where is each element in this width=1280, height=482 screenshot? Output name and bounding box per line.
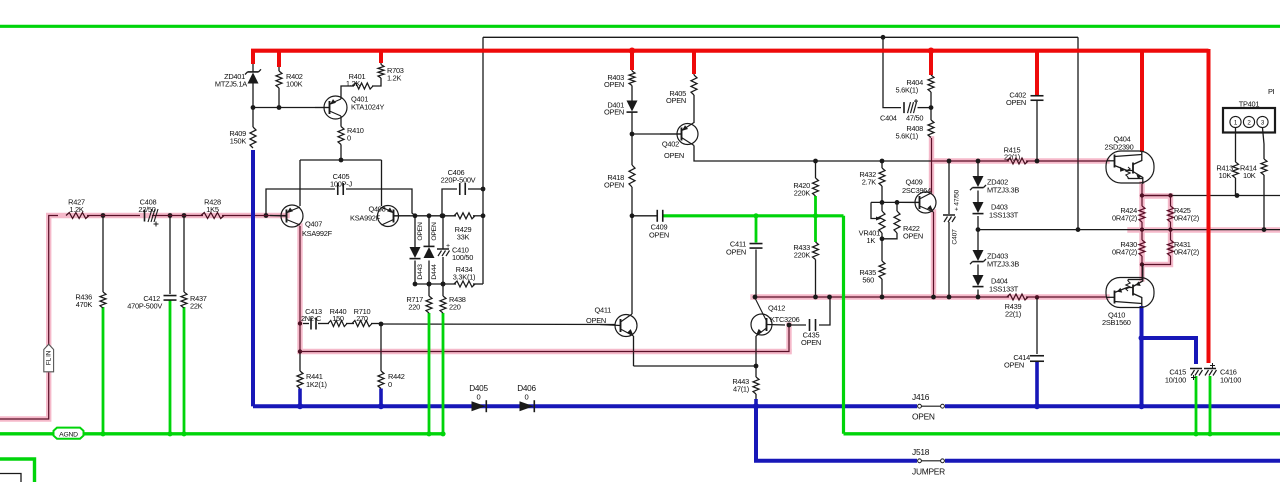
svg-text:FL IN: FL IN [45, 350, 52, 365]
resistor R404 5.6K(1) [928, 75, 934, 92]
junction C414 tap [1035, 295, 1039, 299]
resistor R403 OPEN [629, 71, 635, 86]
svg-text:OPEN: OPEN [666, 96, 686, 105]
junction rail x1170 [1168, 227, 1172, 231]
wire C414 top [1036, 297, 1038, 354]
svg-text:OPEN: OPEN [1006, 98, 1026, 107]
svg-text:560: 560 [862, 276, 874, 285]
pink net highlight halos [0, 216, 287, 420]
svg-text:Q411: Q411 [594, 306, 611, 315]
resistor R430 0R47(2) [1139, 240, 1145, 256]
junction C435 right tap [827, 295, 832, 300]
blue bus -B [253, 404, 917, 408]
svg-text:100/50: 100/50 [452, 253, 473, 262]
resistor R440 150 [328, 321, 347, 327]
diode D401 OPEN [627, 101, 638, 112]
wire emitter rail Q407-Q408 [300, 159, 382, 161]
wire R401 to R703 [372, 78, 381, 86]
wire R432 bottom [881, 186, 883, 202]
junction C409 node [630, 213, 635, 218]
svg-text:OPEN: OPEN [726, 248, 746, 257]
svg-text:470P-500V: 470P-500V [127, 302, 162, 311]
resistor R717 220 [426, 296, 432, 313]
wire R402 top lead [278, 66, 280, 71]
resistor R424 0R47(2) [1139, 206, 1145, 222]
junction R717 tap [427, 282, 432, 287]
diode D406 0 [520, 401, 534, 411]
svg-text:2SC3964: 2SC3964 [902, 186, 931, 195]
svg-text:0: 0 [388, 380, 392, 389]
junction R413 bottom node [1235, 193, 1240, 198]
svg-text:2SB1560: 2SB1560 [1102, 318, 1131, 327]
power stub R404 [929, 49, 933, 75]
svg-text:0R47(2): 0R47(2) [1174, 214, 1199, 223]
junction D rail bottom a [413, 282, 418, 287]
svg-text:10K: 10K [1219, 171, 1232, 180]
wire feedback rail right drop [1077, 37, 1079, 229]
svg-text:OPEN: OPEN [664, 151, 684, 160]
wire bias row [871, 201, 920, 203]
zener ZD403 MTZJ3.3B [973, 250, 984, 261]
svg-text:0: 0 [347, 134, 351, 143]
svg-text:22(1): 22(1) [1005, 309, 1021, 318]
svg-text:0R47(2): 0R47(2) [1174, 248, 1199, 257]
svg-text:OPEN: OPEN [1004, 361, 1024, 370]
net flag AGND [54, 428, 84, 439]
junction R437 tap [182, 213, 187, 218]
wire Q401 emitter to R401 [341, 86, 354, 99]
capacitor C410 100/50 [437, 248, 449, 250]
wire ZD401-R402 node [252, 84, 254, 128]
green drop C415 [1195, 376, 1198, 434]
wire Q402 base [632, 133, 682, 135]
resistor R431 0R47(2) [1168, 240, 1174, 256]
blue branch C415 [1142, 338, 1197, 364]
diode D403 1SS133T [973, 202, 984, 213]
wire R442 lead [380, 324, 382, 371]
svg-text:47(1): 47(1) [733, 385, 749, 394]
power stub R403 [630, 49, 634, 70]
power stub R402 [277, 49, 281, 67]
svg-text:5.6K(1): 5.6K(1) [896, 86, 919, 95]
wire D444 leads [428, 216, 430, 247]
wire D-node rail [415, 215, 456, 217]
capacitor C413 2N2-C [310, 318, 312, 330]
wire C402 bottom [1036, 101, 1038, 161]
capacitor C402 OPEN [1031, 95, 1044, 97]
junction R433 bottom tap [813, 295, 818, 300]
wire R443 leads [755, 366, 757, 377]
svg-text:470K: 470K [76, 300, 93, 309]
net flag FL_IN [44, 344, 54, 372]
svg-text:220: 220 [449, 303, 461, 312]
green stub C411 [755, 216, 758, 243]
wire C405 right leg [346, 189, 415, 216]
svg-text:0R47(2): 0R47(2) [1112, 248, 1137, 257]
capacitor C404 47/50 [903, 102, 905, 113]
wire R436 drop [102, 216, 104, 293]
resistor R429 33K [454, 213, 475, 219]
resistor R436 470K [100, 292, 106, 308]
wire R703 top lead [380, 62, 382, 65]
wire R433 bottom [815, 260, 817, 298]
resistor R442 0 [378, 371, 384, 389]
green bottom-left box [0, 459, 35, 482]
junction R432 tap [880, 159, 885, 164]
wire C404 left leg [883, 37, 901, 107]
wire C406 left leg [442, 189, 457, 216]
svg-text:Q402: Q402 [662, 140, 679, 149]
svg-text:5.6K(1): 5.6K(1) [896, 132, 919, 141]
wire ZD402-D403 [977, 191, 979, 203]
blue corner [251, 404, 255, 406]
wire Q412 emitter drop [755, 336, 757, 366]
green drop C416 [1209, 376, 1212, 434]
resistor R425 0R47(2) [1168, 206, 1174, 222]
resistor R433 220K [813, 242, 819, 260]
wire R413 bottom lead [1235, 178, 1237, 196]
svg-text:KTA1024Y: KTA1024Y [351, 103, 385, 112]
resistor R410 0 [338, 127, 344, 145]
svg-text:TP401: TP401 [1239, 100, 1260, 109]
capacitor C405 100P-J [337, 183, 339, 195]
wire D403-rail [977, 216, 979, 230]
svg-text:1SS133T: 1SS133T [989, 285, 1019, 294]
resistor R434 3.3K(1) [454, 281, 475, 287]
wire rail-ZD403 [977, 230, 979, 250]
resistor R401 1.2K [353, 83, 373, 89]
svg-text:1.2K: 1.2K [387, 74, 402, 83]
resistor R435 560 [879, 261, 885, 279]
capacitor C407 47/50 [943, 214, 955, 216]
svg-text:2.7K: 2.7K [862, 178, 877, 187]
wire R429 right [473, 215, 483, 217]
diode D405 0 [472, 401, 486, 411]
svg-text:1K5: 1K5 [206, 205, 219, 214]
junction R430-R431 node [1140, 262, 1144, 266]
svg-text:PI: PI [1268, 87, 1275, 96]
wire ZD401 top lead [252, 62, 254, 73]
svg-text:0R47(2): 0R47(2) [1112, 214, 1137, 223]
wire C411 bottom [755, 250, 757, 298]
svg-text:+ 47/50: + 47/50 [954, 189, 961, 211]
junction R710 right node [379, 322, 384, 327]
svg-text:3.3K(1): 3.3K(1) [453, 272, 476, 281]
junction VR401 top [880, 200, 885, 205]
net upper bias core [932, 138, 1010, 161]
resistor VR401 1K [879, 211, 885, 233]
blue drop Q410 collector [1140, 306, 1144, 406]
resistor R438 220 [440, 296, 446, 313]
svg-text:KTC3206: KTC3206 [770, 315, 800, 324]
wire ZD403-D404 [977, 265, 979, 276]
junction rail x1142 [1140, 227, 1144, 231]
junction C410 top [441, 213, 446, 218]
junction D443 top [413, 213, 418, 218]
svg-text:JUMPER: JUMPER [912, 467, 945, 477]
junction D rail bottom b [427, 282, 432, 287]
power transistor Q404 2SD2390 (darlington) [1106, 151, 1154, 183]
wire Q411 collector [631, 216, 633, 314]
power stub C402 [1035, 49, 1039, 95]
resistor R422 OPEN [894, 211, 900, 233]
net FL_IN core [0, 373, 49, 420]
svg-text:22/50: 22/50 [138, 205, 155, 214]
power bus +B [251, 49, 1209, 53]
junction C407 top [947, 159, 952, 164]
svg-text:J518: J518 [912, 447, 930, 457]
wire top feedback rail [483, 36, 1078, 38]
svg-text:OPEN: OPEN [912, 412, 935, 422]
diode D444 OPEN [424, 247, 435, 258]
wire R425 bottom [1170, 222, 1172, 230]
wire D443 leads [414, 216, 416, 247]
junction R425 top node [1168, 193, 1172, 197]
net Q407 collector core [300, 226, 789, 352]
transistor Q408 KSA992F [378, 206, 399, 227]
wire TP pin1 [1235, 128, 1237, 162]
capacitor C415 10/100 [1190, 368, 1202, 370]
junction Q407 base node [264, 213, 269, 218]
wire C412 drop [169, 216, 171, 295]
svg-text:KSA992F: KSA992F [302, 229, 333, 238]
junction R422 top [895, 200, 900, 205]
svg-text:AGND: AGND [59, 431, 78, 438]
resistor R427 1.2K [66, 213, 89, 219]
wire C435 left [789, 324, 806, 326]
svg-text:1SS133T: 1SS133T [989, 211, 1019, 220]
wire C435 right [819, 297, 830, 325]
wire R432 top lead [881, 161, 883, 168]
svg-text:MTZJ5.1A: MTZJ5.1A [215, 80, 247, 89]
wire C409 left [632, 215, 657, 217]
junction C407 bottom [947, 295, 952, 300]
connector TP401 [1223, 108, 1275, 133]
wire feedback rail left drop (to C406/R429/R434 right side) [482, 37, 484, 284]
svg-text:OPEN: OPEN [903, 232, 923, 241]
svg-text:OPEN: OPEN [801, 338, 821, 347]
resistor R415 22(1) [1007, 158, 1028, 164]
wire Q408 base [394, 215, 415, 217]
wire R404-R408 node [930, 92, 932, 120]
resistor R437 22K [181, 292, 187, 308]
svg-text:220: 220 [408, 303, 420, 312]
wire R403 column [631, 69, 633, 71]
wire Q407 emitter [299, 160, 301, 206]
blue stub C414 [1035, 362, 1039, 406]
transistor Q411 OPEN [615, 315, 637, 337]
svg-text:1.2K: 1.2K [346, 79, 361, 88]
green AGND bus right [844, 432, 1280, 435]
svg-text:1K: 1K [866, 236, 875, 245]
blue drop R409 [251, 150, 255, 406]
svg-text:J416: J416 [912, 392, 930, 402]
svg-text:270: 270 [356, 314, 368, 323]
power stub ZD401 [251, 49, 255, 64]
net FL_IN core segs [87, 215, 140, 217]
wire R435 leads [881, 239, 883, 261]
green drop R436 [102, 307, 105, 434]
wire C407 top [948, 161, 950, 214]
wire Q402 collector drop [694, 146, 932, 162]
wire ZD402 top lead [977, 161, 979, 176]
wire Q410 emitter lead [1141, 265, 1143, 280]
junction Q412 base node [787, 323, 792, 328]
zener ZD402 MTZJ3.3B [973, 176, 984, 187]
svg-text:OPEN: OPEN [417, 222, 424, 241]
junction pink R441 tap [298, 349, 302, 353]
svg-text:C404: C404 [880, 114, 897, 123]
green drop AGND mid [842, 216, 845, 434]
svg-text:22K: 22K [190, 302, 203, 311]
resistor R408 5.6K(1) [928, 120, 934, 138]
resistor R409 150K [250, 127, 256, 148]
capacitor C412 470P-500V [164, 295, 177, 297]
junction D444 top [427, 213, 432, 218]
capacitor C435 OPEN [809, 319, 811, 331]
wire Q408 emitter [381, 160, 383, 206]
svg-text:2N2-C: 2N2-C [301, 314, 322, 323]
junction Q402 base node [630, 132, 635, 137]
svg-text:Q412: Q412 [768, 304, 785, 313]
svg-text:220P-500V: 220P-500V [441, 176, 476, 185]
junction diode mid rail [976, 227, 981, 232]
blue stub R441 [298, 389, 302, 407]
svg-text:10K: 10K [1243, 171, 1256, 180]
blue bus J518 branch [756, 406, 917, 461]
wire R437 drop [183, 216, 185, 293]
svg-text:10/100: 10/100 [1165, 376, 1186, 385]
svg-text:MTZJ3.3B: MTZJ3.3B [987, 260, 1019, 269]
net Q409 emitter core [933, 212, 935, 297]
resistor R428 1K5 [201, 213, 224, 219]
wire VR401 body leads [881, 202, 883, 211]
resistor R420 220K [813, 178, 819, 196]
svg-text:220K: 220K [794, 251, 811, 260]
svg-text:100P-J: 100P-J [330, 180, 352, 189]
junction top rail / C404 [881, 35, 886, 40]
junction ZD402 top [976, 159, 981, 164]
svg-text:Q407: Q407 [305, 220, 322, 229]
wire R430 bottom [1141, 256, 1143, 265]
power stub R405 [692, 49, 696, 74]
capacitor C409 OPEN [656, 210, 658, 222]
junction C412 tap [168, 213, 173, 218]
green drop R438 [442, 313, 445, 434]
power transistor Q410 2SB1560 (darlington) [1106, 278, 1154, 308]
junction R402 node [277, 105, 282, 110]
svg-text:47/50: 47/50 [906, 114, 923, 123]
junction R436 tap [101, 213, 106, 218]
svg-text:OPEN: OPEN [649, 230, 669, 239]
svg-text:0: 0 [477, 393, 481, 402]
capacitor C406 220P-500V [459, 183, 461, 195]
resistor R402 100K [276, 71, 282, 88]
green link R420-R433 [814, 196, 817, 242]
svg-text:OPEN: OPEN [586, 316, 606, 325]
power drop Q404 collector [1140, 49, 1144, 152]
svg-text:D444: D444 [431, 264, 438, 280]
bottom-left partial label box [0, 474, 21, 482]
junction C406 left tap [440, 213, 445, 218]
junction C411-Q412 node [753, 295, 758, 300]
wire R431 leads [1170, 230, 1172, 240]
zener ZD401 MTZJ5.1A [248, 73, 259, 84]
junction D404 bottom [976, 295, 981, 300]
svg-text:2SD2390: 2SD2390 [1104, 143, 1133, 152]
svg-text:1K2(1): 1K2(1) [306, 380, 327, 389]
svg-text:Q408: Q408 [368, 205, 385, 214]
jumper J518 [920, 460, 942, 462]
wire C410 leads [442, 216, 444, 249]
wire bottom D rail [415, 283, 456, 285]
green drop C412 [169, 300, 172, 434]
svg-text:100K: 100K [286, 80, 303, 89]
resistor R414 10K [1261, 159, 1267, 175]
svg-text:OPEN: OPEN [604, 80, 624, 89]
transistor Q412 KTC3206 [751, 314, 772, 335]
wire R441 lead [299, 352, 301, 372]
resistor R710 270 [352, 321, 372, 327]
svg-text:MTZJ3.3B: MTZJ3.3B [987, 186, 1019, 195]
junction R410 node [339, 158, 344, 163]
net lower bias core [753, 296, 1009, 298]
junction D rail bottom c [441, 282, 446, 287]
wire Q404 emitter lead [1141, 184, 1143, 206]
resistor R443 47(1) [753, 377, 759, 394]
junction rail x1264 [1262, 227, 1267, 232]
power stub R703 [379, 49, 383, 63]
svg-text:OPEN: OPEN [431, 222, 438, 241]
wire R414 bottom lead [1263, 175, 1265, 230]
diode D404 1SS133T [973, 275, 984, 286]
junction ZD401 node [251, 105, 256, 110]
resistor R405 OPEN [691, 75, 697, 95]
transistor Q402 OPEN [677, 124, 698, 145]
green drop R717 [428, 313, 431, 434]
blue stub R442 [379, 389, 383, 407]
svg-text:150K: 150K [230, 137, 247, 146]
wire R424 bottom [1141, 222, 1143, 240]
svg-text:220K: 220K [794, 189, 811, 198]
transistor Q401 KTA1024Y [324, 96, 347, 119]
wire TP pin3 [1263, 128, 1265, 144]
svg-text:33K: 33K [457, 233, 470, 242]
wire C405 left leg [266, 189, 335, 216]
wire output rail [978, 229, 1280, 231]
junction R420 tap [813, 159, 818, 164]
wire R438 top lead [442, 284, 444, 296]
resistor R441 1K2(1) [297, 371, 303, 389]
svg-text:150: 150 [332, 314, 344, 323]
svg-text:0: 0 [525, 393, 529, 402]
svg-text:D443: D443 [417, 264, 424, 280]
wire Q411 emitter drop [633, 336, 635, 366]
wire D404-bus [977, 290, 979, 298]
power drop right C416 [1207, 49, 1211, 363]
capacitor C414 OPEN [1030, 355, 1044, 357]
transistor Q409 2SC3964 [915, 192, 936, 213]
blue stub R443 [754, 399, 758, 406]
capacitor C408 22/50 [144, 210, 146, 222]
jumper J416 [920, 405, 942, 407]
green net C409-C411 [663, 214, 844, 217]
junction pink feedback tap [298, 321, 302, 325]
junction C406 right rail [481, 187, 486, 192]
svg-text:C407: C407 [952, 229, 959, 245]
resistor R418 OPEN [629, 165, 635, 187]
wire R410 to C405 rail [340, 145, 342, 161]
